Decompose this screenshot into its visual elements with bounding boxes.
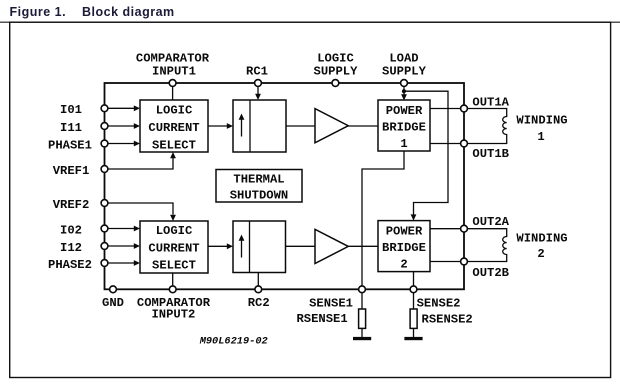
svg-text:LOGIC: LOGIC [156, 224, 193, 238]
svg-text:I01: I01 [60, 103, 82, 117]
wire LOAD SUPPLY into POWER BRIDGE 1 top [401, 87, 407, 101]
svg-text:BRIDGE: BRIDGE [382, 120, 426, 134]
svg-text:SENSE2: SENSE2 [417, 297, 461, 311]
op-amp A1 [315, 109, 348, 143]
pin RC1 [255, 80, 262, 87]
figure caption [10, 5, 175, 19]
ground symbol 1 [353, 337, 371, 340]
pin SENSE1 [359, 286, 366, 293]
pin VREF2 [101, 200, 108, 207]
svg-text:SHUTDOWN: SHUTDOWN [230, 189, 289, 203]
wire LCS2 to DAC2 [208, 243, 233, 249]
pin LOAD SUPPLY [401, 80, 408, 87]
wire LOAD SUPPLY branch to POWER BRIDGE 2 [404, 91, 448, 220]
svg-text:RSENSE1: RSENSE1 [296, 312, 347, 326]
pin PHASE1 [101, 140, 108, 147]
svg-text:I02: I02 [60, 223, 82, 237]
svg-text:INPUT1: INPUT1 [152, 65, 196, 79]
wire POWER BRIDGE 2 to OUT2B [430, 261, 461, 263]
wire VREF1 to LCS1 bottom [108, 152, 176, 169]
box LOGIC CURRENT SELECT 2 [140, 221, 208, 273]
wire COMPARATOR INPUT1 to LCS1 top [172, 87, 174, 101]
svg-text:2: 2 [537, 247, 544, 261]
svg-text:SELECT: SELECT [152, 138, 196, 152]
wire POWER BRIDGE 1 to OUT1B [430, 143, 461, 145]
svg-text:INPUT2: INPUT2 [151, 308, 195, 322]
svg-text:BRIDGE: BRIDGE [382, 241, 426, 255]
svg-text:VREF2: VREF2 [53, 198, 90, 212]
winding 1 coil [467, 109, 506, 144]
wire POWER BRIDGE 2 bottom to SENSE2 [413, 272, 415, 286]
box DAC1 one-shot [233, 100, 286, 152]
pin RC2 [255, 286, 262, 293]
svg-text:1: 1 [537, 130, 544, 144]
svg-text:WINDING: WINDING [516, 231, 567, 245]
svg-text:THERMAL: THERMAL [233, 172, 284, 186]
svg-text:OUT2B: OUT2B [472, 266, 509, 280]
svg-text:1: 1 [400, 137, 407, 151]
box THERMAL SHUTDOWN [216, 170, 302, 203]
svg-text:M90L6219-02: M90L6219-02 [199, 336, 268, 348]
svg-text:LOGIC: LOGIC [317, 52, 354, 66]
box POWER BRIDGE 1 [378, 100, 430, 151]
caption rule [0, 21, 620, 23]
svg-text:I11: I11 [60, 121, 82, 135]
wire DAC1 to op-amp A1 [286, 125, 315, 127]
svg-text:OUT1A: OUT1A [472, 95, 509, 109]
pin VREF1 [101, 166, 108, 173]
wire op-amp A2 to POWER BRIDGE 2 [348, 245, 378, 247]
pin I02 [101, 225, 108, 232]
wire DAC2 to op-amp A2 [286, 245, 316, 247]
wire I01 to LCS1 [108, 105, 140, 111]
svg-text:RSENSE2: RSENSE2 [422, 313, 473, 327]
svg-text:CURRENT: CURRENT [148, 121, 199, 135]
svg-text:SUPPLY: SUPPLY [382, 65, 427, 79]
svg-text:Block diagram: Block diagram [82, 5, 175, 19]
svg-text:COMPARATOR: COMPARATOR [136, 52, 210, 66]
resistor RSENSE1 [359, 293, 366, 337]
svg-text:POWER: POWER [386, 224, 423, 238]
svg-text:2: 2 [400, 257, 407, 271]
wire POWER BRIDGE 2 to OUT2A [430, 228, 461, 230]
wire VREF2 to LCS2 top [108, 203, 176, 221]
wire DAC2 bottom to RC2 [257, 273, 259, 286]
pin OUT1B [461, 140, 468, 147]
svg-text:RC1: RC1 [246, 65, 268, 79]
svg-text:CURRENT: CURRENT [148, 241, 199, 255]
pin I01 [101, 105, 108, 112]
pin OUT2A [461, 225, 468, 232]
wire op-amp A1 to POWER BRIDGE 1 [348, 125, 378, 127]
pin LOGIC SUPPLY [332, 80, 339, 87]
svg-text:POWER: POWER [386, 104, 423, 118]
svg-text:I12: I12 [60, 241, 82, 255]
svg-text:Figure 1.: Figure 1. [10, 5, 67, 19]
wire PHASE2 to LCS2 [108, 260, 140, 266]
winding 2 coil [467, 229, 506, 262]
op-amp A2 [315, 229, 348, 263]
box DAC2 one-shot [233, 221, 286, 273]
svg-text:LOAD: LOAD [389, 52, 418, 66]
svg-text:LOGIC: LOGIC [156, 103, 193, 117]
pin COMPARATOR INPUT1 [169, 80, 176, 87]
svg-text:RC2: RC2 [248, 296, 270, 310]
svg-text:PHASE2: PHASE2 [48, 258, 92, 272]
IC boundary [105, 83, 465, 289]
wire I11 to LCS1 [108, 123, 140, 129]
svg-text:OUT2A: OUT2A [472, 215, 509, 229]
ground symbol 2 [404, 337, 422, 340]
svg-text:GND: GND [102, 296, 124, 310]
junction dot LOAD SUPPLY branch [402, 89, 406, 93]
box LOGIC CURRENT SELECT 1 [140, 100, 208, 152]
pin PHASE2 [101, 260, 108, 267]
svg-text:SUPPLY: SUPPLY [314, 65, 359, 79]
pin I11 [101, 123, 108, 130]
svg-text:VREF1: VREF1 [53, 164, 90, 178]
resistor RSENSE2 [410, 293, 417, 337]
pin COMPARATOR INPUT2 [169, 286, 176, 293]
svg-text:PHASE1: PHASE1 [48, 138, 92, 152]
svg-text:SELECT: SELECT [152, 258, 196, 272]
wire LCS1 to DAC1 [208, 123, 233, 129]
pin OUT2B [461, 258, 468, 265]
svg-text:SENSE1: SENSE1 [309, 297, 353, 311]
pin SENSE2 [410, 286, 417, 293]
wire RC1 into DAC1 top [255, 87, 261, 101]
box POWER BRIDGE 2 [378, 221, 430, 272]
wire LCS2 bottom to COMPARATOR INPUT2 [172, 273, 174, 286]
wire I12 to LCS2 [108, 243, 140, 249]
pin I12 [101, 243, 108, 250]
svg-text:WINDING: WINDING [516, 113, 567, 127]
wire POWER BRIDGE 1 bottom to SENSE1 [362, 151, 404, 286]
svg-text:OUT1B: OUT1B [472, 147, 509, 161]
pin OUT1A [461, 105, 468, 112]
wire POWER BRIDGE 1 to OUT1A [430, 108, 461, 110]
pin GND [110, 286, 117, 293]
wire I02 to LCS2 [108, 226, 140, 232]
wire PHASE1 to LCS1 [108, 141, 140, 147]
